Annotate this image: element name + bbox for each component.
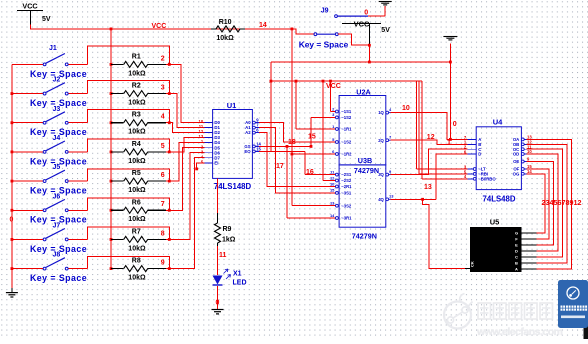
svg-text:4Q: 4Q xyxy=(378,197,384,202)
wire bus y81 xyxy=(271,80,422,82)
svg-text:~1S1: ~1S1 xyxy=(341,109,352,114)
wire VCC to U2A pin1 xyxy=(330,89,332,112)
wire net 3 to U1 xyxy=(169,94,204,128)
wire A1 net17 xyxy=(259,128,338,193)
svg-text:Key = Space: Key = Space xyxy=(299,40,349,50)
junction net 14 xyxy=(291,28,294,31)
svg-text:J4: J4 xyxy=(53,135,61,142)
junction node 6 xyxy=(168,180,171,183)
wire A0 net18 xyxy=(259,123,338,142)
wire GS branch U3B xyxy=(286,146,288,218)
wire net 4 to U1 xyxy=(169,123,204,133)
switch J3 Key=Space xyxy=(11,112,88,124)
wire EI to row5 node xyxy=(197,163,205,169)
svg-text:14: 14 xyxy=(527,169,532,174)
svg-text:0: 0 xyxy=(453,121,457,128)
wire segment OE xyxy=(527,162,554,246)
svg-text:8: 8 xyxy=(161,230,165,237)
wire switch J8 loop over R8 xyxy=(88,256,170,268)
wire 1Q net10 to U4 A xyxy=(391,113,468,140)
svg-text:J6: J6 xyxy=(53,193,61,200)
svg-text:J2: J2 xyxy=(53,77,61,84)
switch J9 xyxy=(321,2,392,18)
wire bus y62 xyxy=(271,61,451,63)
wire EO net16 xyxy=(259,150,305,152)
svg-text:74LS148D: 74LS148D xyxy=(214,182,252,191)
svg-text:9: 9 xyxy=(161,259,165,266)
switch J6 Key=Space xyxy=(11,199,88,211)
svg-text:D: D xyxy=(515,249,518,254)
resistor R2 10k xyxy=(110,83,170,107)
watermark glyphs faint xyxy=(478,303,553,319)
svg-text:R1: R1 xyxy=(132,53,141,60)
wire net 2 to U1 xyxy=(169,64,204,122)
svg-text:~1S2: ~1S2 xyxy=(341,115,352,120)
resistor R8 10k xyxy=(110,258,170,282)
svg-text:E: E xyxy=(515,243,518,248)
svg-text:~BI/RBO: ~BI/RBO xyxy=(478,176,496,181)
svg-text:R10: R10 xyxy=(219,19,232,26)
resistor R1 10k xyxy=(110,53,170,77)
svg-text:R3: R3 xyxy=(132,112,141,119)
wire switch J7 loop over R7 xyxy=(88,227,170,239)
ground bottom-left xyxy=(6,292,18,294)
svg-text:J1: J1 xyxy=(49,45,57,52)
IC U3B 74279N xyxy=(330,156,394,241)
svg-text:VCC: VCC xyxy=(326,83,341,90)
resistor R6 10k xyxy=(110,199,170,223)
power VCC2 5V xyxy=(342,20,390,46)
svg-text:CK: CK xyxy=(470,261,475,267)
junction node 7 xyxy=(168,209,171,212)
switch J1 Key=Space xyxy=(12,54,88,66)
svg-text:11: 11 xyxy=(219,252,227,259)
svg-text:10: 10 xyxy=(330,181,335,186)
svg-text:14: 14 xyxy=(330,213,335,218)
display U5 xyxy=(465,217,536,272)
svg-text:5: 5 xyxy=(161,143,165,150)
wire segment OD xyxy=(527,154,559,251)
svg-text:U2A: U2A xyxy=(356,88,370,97)
svg-text:13: 13 xyxy=(330,201,335,206)
svg-text:~1R1: ~1R1 xyxy=(341,127,352,132)
svg-text:13: 13 xyxy=(389,194,394,199)
wire bus62 drop to EO row xyxy=(270,62,272,151)
wire net 5 to U1 xyxy=(169,138,204,152)
wire to U4 ~RBI xyxy=(418,81,420,174)
wire switch J4 loop over R4 xyxy=(88,139,170,152)
elecfans badge xyxy=(558,280,588,328)
wire segment OG xyxy=(527,174,545,233)
svg-text:R4: R4 xyxy=(132,141,141,148)
wire net14 branch to U2A pin5 xyxy=(292,153,338,155)
wire bus drop x323 xyxy=(322,81,324,180)
wire to U4 ~BI/RBO xyxy=(421,81,423,179)
IC U1 74LS148D xyxy=(199,101,262,191)
svg-text:C: C xyxy=(515,254,518,259)
wire net 8 to U1 xyxy=(169,153,204,240)
switch J5 Key=Space xyxy=(11,170,88,182)
svg-text:0: 0 xyxy=(216,300,220,307)
svg-text:4: 4 xyxy=(161,114,165,121)
switch J4 Key=Space xyxy=(11,141,88,153)
svg-text:~3S1: ~3S1 xyxy=(341,191,352,196)
wire pull-up rail xyxy=(110,29,112,269)
svg-text:0: 0 xyxy=(10,217,14,224)
svg-text:1Q: 1Q xyxy=(378,110,384,115)
svg-text:J5: J5 xyxy=(53,164,61,171)
junction rail top xyxy=(110,28,113,31)
wire segment OC xyxy=(527,149,563,257)
wire to U4 ~LT xyxy=(416,81,418,169)
wire bus drop x296 xyxy=(295,81,297,129)
wire 2Q net12 to U4 B xyxy=(391,140,468,144)
switch J2 Key=Space xyxy=(11,83,88,95)
svg-text:LED: LED xyxy=(233,280,247,287)
wire U1 to R9 xyxy=(217,178,219,213)
svg-text:U4: U4 xyxy=(493,117,503,126)
svg-text:~3R1: ~3R1 xyxy=(341,216,352,221)
wire VCC to rail and R10 xyxy=(31,25,292,29)
svg-text:15: 15 xyxy=(256,146,261,151)
svg-text:D7: D7 xyxy=(214,155,220,160)
svg-text:R8: R8 xyxy=(132,258,141,265)
svg-text:0: 0 xyxy=(364,9,368,16)
svg-text:14: 14 xyxy=(259,22,267,29)
svg-text:B: B xyxy=(515,260,518,265)
svg-text:J8: J8 xyxy=(53,252,61,259)
svg-text:OG: OG xyxy=(513,171,520,176)
wire 4Q to U4 D xyxy=(436,154,468,199)
svg-text:U3B: U3B xyxy=(358,156,372,165)
svg-text:www.elecfans.com: www.elecfans.com xyxy=(476,326,563,338)
power source VCC 5V top-left xyxy=(17,2,51,25)
svg-text:~2S2: ~2S2 xyxy=(341,178,352,183)
svg-text:6: 6 xyxy=(161,172,165,179)
switch J9b Key=Space xyxy=(292,29,369,50)
switch J8 Key=Space xyxy=(11,258,88,270)
svg-text:7: 7 xyxy=(161,201,165,208)
ground top-right2 xyxy=(443,37,457,63)
svg-text:2Q: 2Q xyxy=(378,138,384,143)
svg-text:VCC: VCC xyxy=(354,20,370,29)
watermark logo faint xyxy=(444,294,473,329)
svg-text:10kΩ: 10kΩ xyxy=(128,245,146,252)
wire A2 xyxy=(259,133,338,187)
svg-text:15: 15 xyxy=(308,134,316,141)
svg-text:5V: 5V xyxy=(42,16,51,23)
svg-text:EO: EO xyxy=(244,149,251,154)
wire net 9 to U1 xyxy=(169,158,204,269)
resistor R9 1k xyxy=(215,213,236,246)
svg-text:10kΩ: 10kΩ xyxy=(128,70,146,77)
wire VCC2 to bus xyxy=(368,44,371,47)
wire to U5 common xyxy=(421,198,424,201)
wire switch J6 loop over R6 xyxy=(88,198,170,210)
svg-text:12: 12 xyxy=(427,134,435,141)
wire net 6 to U1 xyxy=(169,143,204,181)
svg-text:R7: R7 xyxy=(132,228,141,235)
svg-text:A: A xyxy=(515,266,518,271)
svg-text:U1: U1 xyxy=(227,101,237,110)
wire segment OA xyxy=(527,139,572,268)
svg-text:~3S2: ~3S2 xyxy=(341,203,352,208)
switch J7 Key=Space xyxy=(11,229,88,241)
svg-text:Key = Space: Key = Space xyxy=(30,273,87,283)
junction node 2 xyxy=(168,63,171,66)
junction node 5 xyxy=(168,151,171,154)
svg-text:U5: U5 xyxy=(490,217,500,226)
wire net11 xyxy=(217,246,219,275)
LED X1 xyxy=(213,269,247,287)
wire LED to ground xyxy=(217,286,219,310)
wire 3Q net13 to U4 C xyxy=(391,149,468,174)
svg-text:3: 3 xyxy=(161,84,165,91)
svg-text:74LS48D: 74LS48D xyxy=(483,194,516,203)
svg-text:J7: J7 xyxy=(53,222,61,229)
svg-text:G: G xyxy=(515,231,518,236)
svg-text:J3: J3 xyxy=(53,106,61,113)
junction node 3 xyxy=(168,92,171,95)
wire switch J2 loop over R2 xyxy=(88,81,170,94)
svg-text:17: 17 xyxy=(276,163,284,170)
svg-text:10kΩ: 10kΩ xyxy=(128,99,146,106)
svg-text:R6: R6 xyxy=(132,199,141,206)
black corner bar xyxy=(584,318,588,339)
wire segment OB xyxy=(527,144,568,263)
svg-text:2345678912: 2345678912 xyxy=(542,198,582,207)
wire GS net15 xyxy=(259,145,311,147)
svg-text:OE: OE xyxy=(513,159,519,164)
wire net0 drop xyxy=(449,62,451,139)
wire segment OF xyxy=(527,169,550,239)
svg-text:EI: EI xyxy=(214,161,218,166)
svg-text:R9: R9 xyxy=(223,226,232,233)
IC U4 74LS48D xyxy=(464,117,532,203)
svg-text:~2R1: ~2R1 xyxy=(341,184,352,189)
svg-text:D: D xyxy=(478,152,481,157)
svg-text:R2: R2 xyxy=(132,83,141,90)
resistor R3 10k xyxy=(110,112,170,136)
resistor R5 10k xyxy=(110,170,170,194)
wire switch J5 loop over R5 xyxy=(88,169,170,181)
resistor R7 10k xyxy=(110,228,170,252)
svg-text:3Q: 3Q xyxy=(378,172,384,177)
svg-text:1kΩ: 1kΩ xyxy=(222,237,236,244)
svg-text:10kΩ: 10kΩ xyxy=(128,216,146,223)
svg-text:5V: 5V xyxy=(381,27,390,34)
svg-text:10: 10 xyxy=(402,105,410,112)
wire net14 to U3B xyxy=(291,29,293,206)
resistor R10 10k xyxy=(211,19,245,42)
svg-text:16: 16 xyxy=(306,169,314,176)
svg-text:A2: A2 xyxy=(245,130,251,135)
svg-text:VCC: VCC xyxy=(22,2,37,11)
IC U2A 74279N xyxy=(332,88,392,165)
svg-text:2: 2 xyxy=(161,55,165,62)
svg-text:74279N: 74279N xyxy=(352,232,377,241)
svg-text:VCC: VCC xyxy=(152,23,167,30)
wire switch J1 loop over R1 xyxy=(88,46,170,65)
ground below LED xyxy=(212,309,224,311)
svg-text:R5: R5 xyxy=(132,170,141,177)
svg-text:~2S1: ~2S1 xyxy=(341,172,352,177)
wire ground rail left xyxy=(11,64,13,292)
svg-text:10kΩ: 10kΩ xyxy=(128,129,146,136)
svg-text:74279N: 74279N xyxy=(354,166,379,175)
svg-text:J9: J9 xyxy=(321,7,329,14)
svg-text:10: 10 xyxy=(527,149,532,154)
wire net 7 to U1 xyxy=(169,148,204,211)
wire 4Q row xyxy=(391,198,436,200)
svg-text:OD: OD xyxy=(513,152,519,157)
junction node 8 xyxy=(168,238,171,241)
resistor R4 10k xyxy=(110,141,170,165)
junction node 9 xyxy=(168,267,171,270)
svg-text:~1S2: ~1S2 xyxy=(341,140,352,145)
svg-text:10kΩ: 10kΩ xyxy=(216,35,234,42)
svg-text:13: 13 xyxy=(424,184,432,191)
svg-text:15: 15 xyxy=(330,188,335,193)
wire switch J3 loop over R3 xyxy=(88,110,170,123)
svg-text:10kΩ: 10kΩ xyxy=(128,274,146,281)
svg-text:X1: X1 xyxy=(233,271,242,278)
svg-text:~1R2: ~1R2 xyxy=(341,152,352,157)
junction node 4 xyxy=(168,121,171,124)
svg-text:12: 12 xyxy=(330,175,335,180)
svg-text:10kΩ: 10kΩ xyxy=(128,158,146,165)
svg-text:10kΩ: 10kΩ xyxy=(128,187,146,194)
